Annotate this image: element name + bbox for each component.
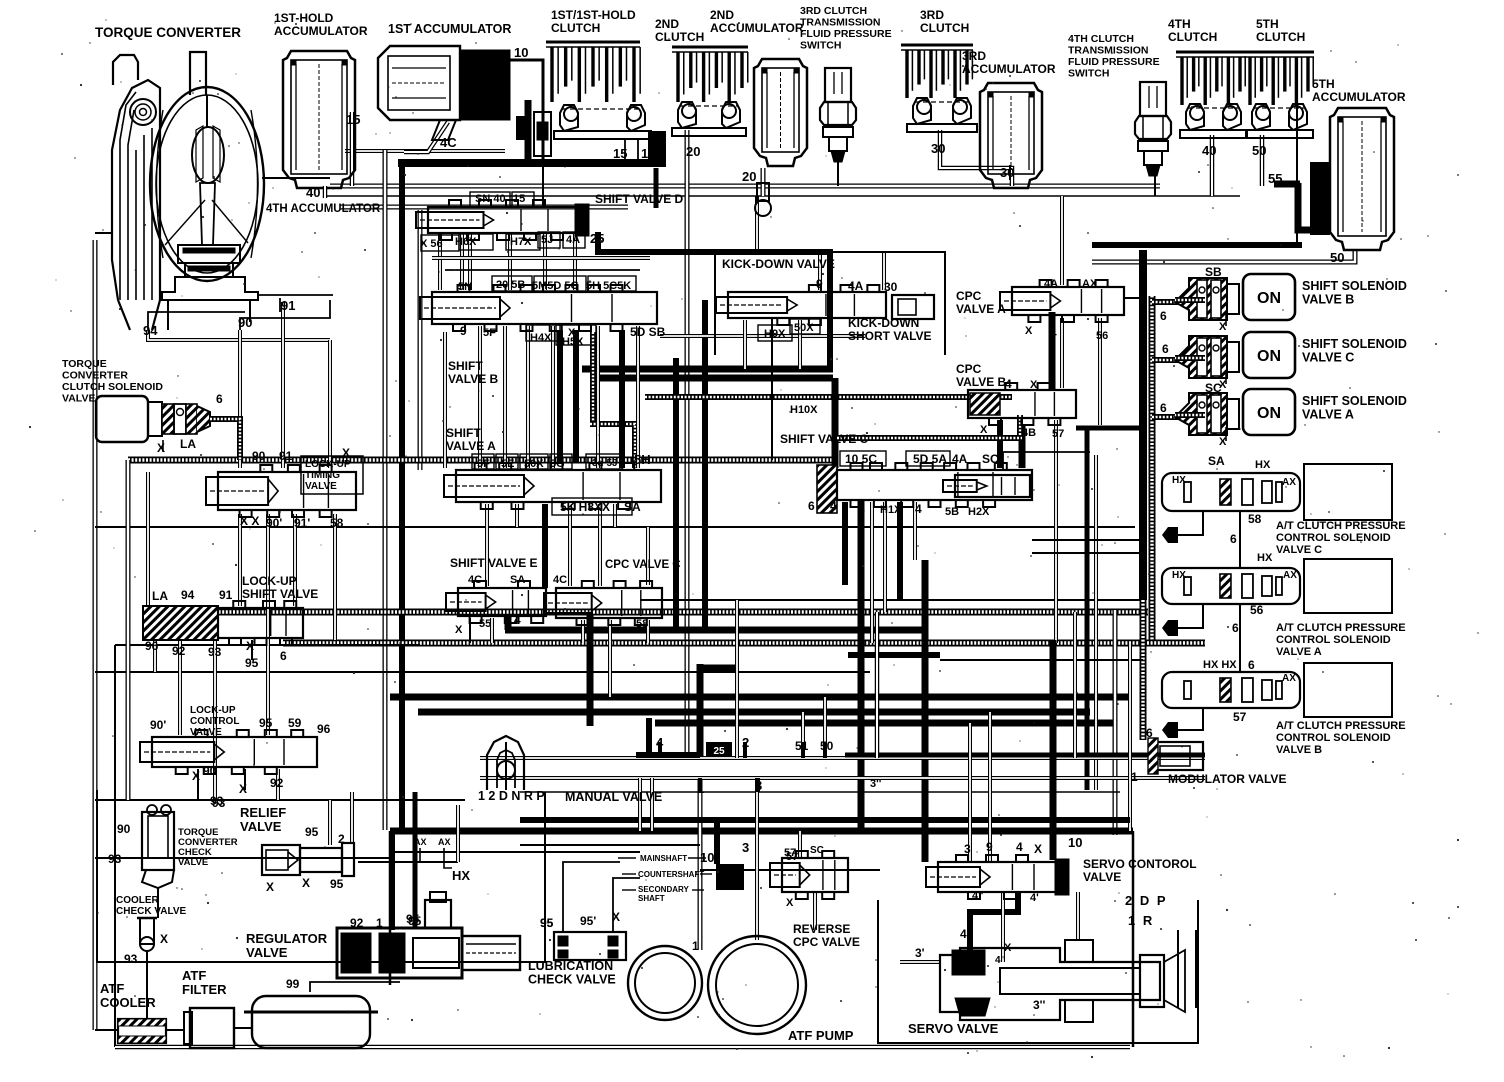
svg-text:57: 57	[1052, 428, 1064, 440]
svg-text:4: 4	[514, 613, 521, 627]
svg-text:90': 90'	[150, 718, 166, 732]
wire: lubrication valve feeds	[563, 862, 620, 932]
svg-text:X: X	[302, 876, 310, 890]
solenoid valve: A/T clutch pressure control solenoid valve B	[1162, 663, 1392, 717]
wire: selector lines	[1177, 930, 1179, 1008]
svg-text:1ST ACCUMULATOR: 1ST ACCUMULATOR	[388, 22, 511, 36]
svg-text:92: 92	[270, 776, 284, 790]
svg-text:4C: 4C	[440, 135, 457, 150]
atf cooler	[118, 1019, 166, 1043]
svg-text:X: X	[455, 624, 463, 636]
wire: 4 feed thick	[646, 718, 652, 755]
check valve: torque converter	[142, 805, 174, 888]
wire: 10 feed reverse cpc	[714, 820, 720, 864]
svg-text:10: 10	[641, 146, 655, 161]
wire: shift D to B drops	[438, 234, 442, 290]
wire: top bus y178	[262, 177, 330, 179]
wire: CPC A 4 down	[1049, 312, 1056, 390]
wire: thick top of lower box	[390, 828, 1133, 835]
svg-text:SB: SB	[1205, 265, 1222, 279]
svg-text:X: X	[1025, 325, 1033, 337]
svg-text:ATF PUMP: ATF PUMP	[788, 1028, 854, 1043]
svg-text:5D SB: 5D SB	[630, 325, 666, 339]
wire: thick bar y697	[390, 694, 1130, 701]
wire: solenoid X stubs	[1225, 312, 1227, 326]
wire: block links x1240	[1239, 511, 1241, 568]
wire: y800 left	[95, 799, 465, 801]
svg-text:CPC VALVE C: CPC VALVE C	[605, 559, 681, 571]
pressure switch: 3rd clutch	[820, 68, 856, 162]
svg-text:1 R: 1 R	[1128, 913, 1154, 928]
svg-text:4A: 4A	[848, 279, 864, 293]
wire: reverse cpc feeds	[798, 831, 802, 858]
wire: port stubs manual valve	[658, 742, 662, 758]
label: lock-up timing valve	[301, 456, 363, 494]
clutch pack: 3rd	[901, 45, 973, 98]
wire: A bottom drops	[485, 504, 489, 586]
svg-text:X: X	[160, 932, 168, 946]
wire: y792 line	[520, 791, 1120, 793]
wire: manual valve body	[480, 756, 1205, 760]
wire: bus y193	[325, 195, 1240, 197]
svg-text:25: 25	[713, 746, 725, 757]
svg-text:2 D P: 2 D P	[1125, 893, 1168, 908]
svg-text:4C: 4C	[468, 574, 482, 586]
svg-text:58: 58	[1248, 512, 1262, 526]
svg-text:91: 91	[279, 449, 293, 463]
wire: CPC B down to shift valve C	[1019, 425, 1026, 468]
wire: blob drop to bus	[654, 168, 659, 208]
wire: lock-up shift bottom drops	[153, 640, 157, 672]
svg-text:3': 3'	[915, 946, 925, 960]
wire: lower box left	[389, 831, 392, 985]
svg-text:H4X: H4X	[530, 332, 552, 344]
wire: y672	[95, 671, 870, 673]
svg-text:50X: 50X	[794, 322, 814, 334]
wire: thick bar y723	[655, 720, 1115, 727]
svg-text:6: 6	[1160, 309, 1167, 323]
svg-text:3'': 3''	[870, 778, 882, 790]
wire: servo box frame	[878, 900, 1198, 1043]
wire: 2nd clutch 20 down	[685, 130, 690, 756]
wire: y860 left	[95, 857, 390, 859]
svg-text:AX: AX	[1082, 278, 1098, 290]
svg-text:SA: SA	[510, 574, 525, 586]
svg-text:50: 50	[1252, 143, 1266, 158]
svg-text:5F: 5F	[477, 458, 490, 470]
wire: 2 line	[735, 600, 739, 758]
svg-text:15: 15	[346, 112, 360, 127]
svg-text:REVERSECPC VALVE: REVERSECPC VALVE	[793, 922, 860, 949]
svg-text:40: 40	[1202, 143, 1216, 158]
valve: small inline	[534, 112, 551, 156]
svg-text:X: X	[1004, 942, 1012, 954]
svg-text:95: 95	[330, 877, 344, 891]
clutch pack: 2nd	[672, 47, 748, 102]
svg-text:5B: 5B	[945, 506, 959, 518]
wire: 3rd switch down	[837, 160, 839, 186]
valve: lubrication check	[554, 932, 626, 960]
wire: left bus x95	[93, 240, 98, 1030]
valve: shift valve A	[444, 463, 661, 509]
wire: x115 vertical	[114, 645, 116, 1047]
wire: hatched vertical to solenoids	[1149, 296, 1156, 643]
reverse cpc valve black end	[716, 864, 744, 890]
svg-text:91: 91	[219, 588, 233, 602]
valve: shift valve B	[420, 285, 657, 331]
wire: x590 CPC C down	[587, 615, 594, 726]
wire: x835 vertical to shift valve C	[832, 378, 839, 468]
wire: y336 double	[660, 334, 865, 338]
svg-text:2: 2	[338, 832, 345, 846]
wire: 3rd clutch 30 down	[940, 130, 1012, 186]
svg-text:6: 6	[1160, 401, 1167, 415]
wire: x1090 vertical	[1085, 428, 1090, 790]
svg-text:92: 92	[350, 916, 364, 930]
wire: 1st-hold accumulator bottom	[323, 186, 328, 198]
wire: x1053 thick vertical	[1050, 640, 1057, 856]
clutch piston: 2nd	[672, 102, 746, 136]
svg-text:90: 90	[238, 315, 252, 330]
svg-text:30: 30	[931, 141, 945, 156]
svg-text:X: X	[342, 446, 350, 460]
svg-text:SC: SC	[810, 845, 824, 856]
wire: mid-right horizontals	[1032, 539, 1143, 541]
wire: regulator feeds	[389, 831, 395, 930]
svg-text:96: 96	[317, 722, 331, 736]
valve: shift valve C pilot	[943, 475, 1030, 497]
wire: CPC B to x1143	[1076, 426, 1143, 431]
svg-text:58: 58	[636, 618, 648, 630]
svg-text:99: 99	[286, 977, 300, 991]
svg-text:96: 96	[145, 639, 159, 653]
svg-text:10: 10	[700, 850, 714, 865]
svg-text:ON: ON	[1257, 290, 1281, 307]
svg-text:15: 15	[513, 193, 525, 205]
clutch pack: 4th	[1176, 52, 1246, 105]
wire: 5th clutch 50 down	[1260, 135, 1265, 186]
svg-text:30: 30	[884, 280, 898, 294]
svg-text:1: 1	[376, 916, 383, 930]
svg-text:H2X: H2X	[968, 506, 990, 518]
clutch piston: 4th	[1180, 104, 1247, 138]
valve: shift valve E	[446, 581, 546, 623]
svg-text:1: 1	[1131, 770, 1138, 784]
wire: lock-up control bottom drops	[197, 769, 199, 800]
svg-text:X: X	[246, 639, 254, 653]
wire: hatched drop x593	[590, 332, 596, 424]
svg-text:93: 93	[108, 852, 122, 866]
svg-text:SA: SA	[1208, 454, 1225, 468]
svg-text:95: 95	[305, 825, 319, 839]
wire: x700 down to pump	[698, 780, 703, 950]
valve: shift valve C	[837, 463, 1032, 507]
wire: 4th clutch 40 down	[1210, 135, 1215, 196]
svg-text:95': 95'	[580, 914, 596, 928]
svg-text:20: 20	[686, 144, 700, 159]
wire: manual valve down drops	[638, 778, 642, 831]
wire: x420 vertical	[418, 210, 423, 470]
svg-text:56: 56	[1250, 603, 1264, 617]
svg-text:AX: AX	[1282, 673, 1296, 684]
svg-text:57: 57	[786, 851, 798, 863]
accumulator: 1st (horizontal)	[378, 46, 510, 140]
wire: junction blob	[648, 131, 666, 167]
svg-text:3: 3	[964, 842, 971, 856]
svg-text:9: 9	[460, 324, 467, 338]
wire: y205 double	[340, 205, 628, 210]
wire: manual valve thick top	[845, 753, 1205, 758]
wire: CPC A-B link	[1060, 318, 1064, 388]
wire: relief to box edge	[358, 861, 458, 863]
svg-text:5N: 5N	[458, 281, 472, 293]
svg-text:55: 55	[1268, 171, 1282, 186]
clutch pack: 1st/1st-hold	[546, 42, 640, 102]
wire: 25 thick down	[598, 232, 830, 369]
svg-text:4: 4	[858, 502, 865, 516]
valve: shift valve D	[416, 200, 589, 240]
wire: cpc valve connectors	[1175, 512, 1203, 535]
svg-text:30: 30	[1000, 165, 1014, 180]
svg-text:4': 4'	[1030, 892, 1039, 904]
wire: x128 vertical	[126, 460, 131, 800]
wire: 4A up from CPC A	[1060, 196, 1064, 285]
wire: 15/10 clutch drains	[624, 140, 626, 162]
svg-text:20 5B: 20 5B	[496, 279, 525, 291]
clutch pack: 5th	[1244, 52, 1314, 105]
svg-text:4': 4'	[960, 927, 970, 941]
manual valve detent	[487, 736, 524, 790]
svg-text:93: 93	[208, 645, 222, 659]
solenoid valve: A/T clutch pressure control solenoid valve A	[1162, 559, 1392, 613]
svg-text:95: 95	[540, 916, 554, 930]
svg-text:50X: 50X	[524, 458, 544, 470]
servo valve assembly	[940, 940, 1185, 1022]
svg-text:4: 4	[1016, 840, 1023, 854]
wire: 3 line below manual valve	[755, 778, 759, 940]
atf pump gears	[628, 936, 806, 1034]
wire: B to A drops	[478, 326, 482, 468]
clutch piston: 1st/1st-hold	[554, 105, 651, 139]
svg-text:1: 1	[340, 962, 347, 976]
svg-text:6: 6	[1232, 621, 1239, 635]
svg-text:X: X	[266, 880, 274, 894]
pressure switch: 4th clutch	[1135, 82, 1171, 176]
svg-text:X X: X X	[240, 514, 259, 528]
svg-text:5D 5A: 5D 5A	[913, 452, 947, 466]
svg-text:94: 94	[143, 323, 158, 338]
svg-text:HX: HX	[452, 868, 470, 883]
port 25 boxed	[706, 742, 732, 757]
svg-text:50: 50	[1330, 250, 1344, 265]
wire: thick bar y712	[418, 709, 1090, 716]
svg-text:H9X: H9X	[764, 328, 786, 340]
svg-text:X: X	[1034, 842, 1042, 856]
wire: TC outlet drops	[148, 330, 330, 340]
svg-text:AX: AX	[438, 837, 451, 847]
svg-text:4: 4	[1050, 326, 1057, 340]
svg-text:4: 4	[915, 502, 922, 516]
svg-text:5F: 5F	[483, 327, 496, 339]
svg-text:AX: AX	[1282, 477, 1296, 488]
svg-text:X: X	[1030, 379, 1038, 391]
svg-text:COUNTERSHAFT: COUNTERSHAFT	[638, 870, 704, 879]
black feed: 5th accumulator	[1310, 162, 1330, 235]
wire: solenoid hatched stubs	[1152, 299, 1183, 305]
svg-text:5M5D 5G: 5M5D 5G	[532, 280, 579, 292]
wire: relief valve feeds	[328, 800, 332, 845]
svg-text:4C: 4C	[553, 574, 567, 586]
wire: cooler check link	[146, 950, 148, 1018]
wire: 55 elbow horiz	[1274, 181, 1300, 188]
accumulator: 3rd	[980, 83, 1042, 188]
svg-text:90': 90'	[266, 516, 282, 530]
svg-text:6: 6	[808, 499, 815, 513]
svg-text:91': 91'	[294, 516, 310, 530]
valve: lock-up control valve	[140, 730, 317, 774]
svg-text:4'': 4''	[972, 890, 984, 902]
svg-text:92: 92	[172, 644, 186, 658]
wire: 50 bus top right	[1092, 242, 1302, 248]
svg-text:10: 10	[514, 45, 528, 60]
wire: 4th switch down	[1154, 172, 1156, 196]
svg-text:LA: LA	[152, 589, 168, 603]
svg-text:H7X: H7X	[510, 236, 532, 248]
svg-text:95: 95	[245, 656, 259, 670]
wire: solenoid 6 feeds	[1175, 297, 1205, 303]
svg-text:X: X	[786, 897, 794, 909]
svg-text:LA: LA	[180, 437, 196, 451]
svg-text:55: 55	[479, 618, 491, 630]
wire: CPC B drops	[997, 420, 1003, 468]
check ball: 10	[516, 116, 531, 140]
wire: X drain tc solenoid	[162, 440, 164, 452]
svg-text:5H 5C5K: 5H 5C5K	[586, 280, 631, 292]
port label boxes	[470, 192, 510, 207]
wire: thick bar y655	[848, 652, 940, 658]
wire: cooler-filter-pan links	[95, 1029, 118, 1031]
valve: modulator	[1148, 738, 1203, 774]
svg-text:4A: 4A	[952, 452, 968, 466]
wire: hatched bus y460	[128, 457, 837, 464]
svg-text:HX HX: HX HX	[1203, 659, 1237, 671]
hatch spool: lock-up shift valve	[143, 606, 218, 640]
wire: shift valve C bottom drops	[842, 502, 848, 585]
svg-text:6: 6	[216, 392, 223, 406]
svg-text:5E: 5E	[501, 458, 514, 470]
wire: thick bar y820	[520, 817, 1130, 823]
wire: CPC A right link	[1124, 297, 1143, 299]
svg-text:HX: HX	[1172, 570, 1186, 581]
wire: 99 into pan	[310, 982, 400, 992]
wire: kick-down 30 up	[882, 253, 886, 290]
valve: lock-up shift valve	[218, 601, 303, 645]
svg-text:SHIFT VALVE E: SHIFT VALVE E	[450, 556, 538, 570]
wire: SC elbow	[1003, 452, 1090, 470]
wire: shift E 4 thick down	[505, 614, 512, 630]
wire: 3rd accum 30 down	[1009, 165, 1011, 180]
svg-text:6: 6	[1230, 532, 1237, 546]
svg-text:91: 91	[281, 298, 295, 313]
svg-text:MODULATOR VALVE: MODULATOR VALVE	[1168, 772, 1286, 786]
wire: CPC C bottom drops	[581, 620, 585, 643]
svg-text:5H: 5H	[634, 452, 651, 467]
wire: x1053 to servo	[1050, 640, 1057, 860]
valve: CPC valve A	[1000, 280, 1124, 322]
wire: AX stubs	[419, 848, 421, 862]
svg-text:90: 90	[203, 764, 217, 778]
svg-text:4: 4	[830, 499, 837, 513]
svg-text:3'': 3''	[1033, 998, 1046, 1012]
valve: lock-up timing valve	[206, 465, 356, 517]
solenoid: torque converter clutch	[96, 396, 210, 442]
svg-text:4TH ACCUMULATOR: 4TH ACCUMULATOR	[266, 203, 381, 215]
wire: x1115 vertical	[1113, 610, 1118, 835]
wire: x402 vertical	[399, 163, 405, 830]
svg-text:6: 6	[1248, 658, 1255, 672]
svg-text:51: 51	[795, 739, 809, 753]
valve: kick-down valve	[716, 285, 886, 325]
svg-text:H1X: H1X	[880, 504, 902, 516]
svg-text:59: 59	[288, 716, 302, 730]
wire: 5th accum to 50 bus	[1092, 250, 1355, 262]
valve: regulator	[337, 892, 520, 978]
wire: 10 down to shift valve D	[542, 163, 544, 206]
svg-text:SHIFT VALVE C: SHIFT VALVE C	[780, 432, 869, 446]
svg-text:1 2 D N R P: 1 2 D N R P	[478, 789, 545, 803]
wire: 2nd accum 20 down	[761, 168, 766, 196]
wire: LA line	[210, 419, 240, 460]
svg-text:58: 58	[330, 516, 344, 530]
wire: bus y185	[330, 184, 1160, 189]
svg-text:HX: HX	[1172, 475, 1186, 486]
torque converter	[112, 52, 264, 330]
wire: x861 thick vertical	[858, 500, 865, 830]
solenoid valve: A/T clutch pressure control solenoid valve C	[1162, 464, 1392, 520]
svg-text:SC: SC	[982, 452, 999, 466]
svg-text:MANUAL VALVE: MANUAL VALVE	[565, 790, 662, 804]
wire: 4C slant from 1st accumulator	[404, 122, 448, 152]
svg-text:SERVO VALVE: SERVO VALVE	[908, 1021, 999, 1036]
wire: x1143 very thick vertical	[1139, 250, 1147, 600]
svg-text:3: 3	[742, 840, 749, 855]
svg-text:10 5C: 10 5C	[845, 452, 877, 466]
solenoid: shift solenoid valve A	[1175, 389, 1295, 435]
wire: left lower box	[97, 790, 545, 962]
wire: x925 extend	[922, 830, 929, 862]
svg-text:4A: 4A	[1044, 278, 1058, 290]
valve: CPC valve C	[544, 581, 662, 625]
svg-text:H10X: H10X	[790, 404, 818, 416]
svg-text:HX: HX	[1257, 552, 1273, 564]
svg-text:SN 40: SN 40	[475, 193, 506, 205]
svg-text:4A: 4A	[566, 234, 580, 246]
oil pan	[244, 996, 378, 1048]
wire: right column verticals	[1073, 612, 1077, 758]
wire: bottom frame	[115, 1045, 1130, 1050]
svg-text:5J: 5J	[541, 234, 553, 246]
accumulator: 2nd	[754, 59, 807, 166]
valve: servo control valve	[926, 855, 1069, 899]
wire: x385 long vertical	[383, 150, 388, 830]
svg-text:LUBRICATIONCHECK VALVE: LUBRICATIONCHECK VALVE	[528, 959, 616, 987]
wire: x877 vertical	[875, 612, 880, 758]
wire: bottom horizontals	[520, 844, 700, 846]
wire: label box vertical	[443, 332, 447, 468]
svg-text:93: 93	[124, 952, 138, 966]
svg-text:1: 1	[692, 939, 699, 953]
wire: torque converter outlet 94/90/91	[148, 312, 245, 330]
